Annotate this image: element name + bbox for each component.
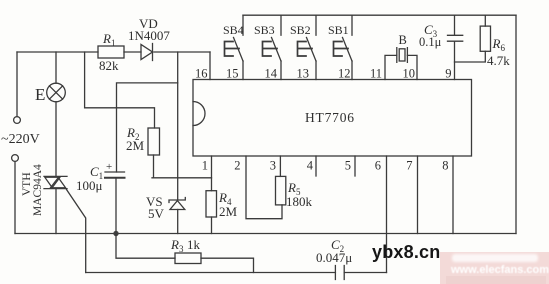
svg-text:4: 4 (307, 159, 314, 173)
switch SB2 (298, 15, 317, 79)
wire bottom bus (15, 233, 516, 235)
pin 7 (406, 159, 412, 173)
wire C1 top branch (117, 83, 178, 172)
label R6 (487, 36, 510, 68)
svg-text:~220V: ~220V (1, 132, 40, 147)
op-amp U1 HT7706 IC body (193, 80, 472, 157)
svg-text:2: 2 (234, 159, 240, 173)
svg-text:SB4: SB4 (223, 23, 244, 37)
label R2 (126, 125, 145, 153)
pin 14 (265, 67, 278, 81)
label VS 5V (146, 194, 165, 221)
svg-text:5V: 5V (148, 206, 165, 221)
resistor R5 (276, 156, 286, 205)
wire top bus (243, 14, 516, 16)
svg-text:SB2: SB2 (290, 23, 311, 37)
svg-text:5: 5 (345, 159, 351, 173)
node ~220V (1, 132, 40, 147)
svg-text:11: 11 (370, 67, 382, 81)
wire pin16 drop (209, 52, 211, 80)
pin 16 (195, 67, 208, 81)
resistor R6 (455, 15, 491, 62)
label B (399, 33, 407, 47)
svg-text:12: 12 (338, 67, 351, 81)
svg-text:13: 13 (297, 67, 310, 81)
label SB1 (328, 23, 349, 37)
pin 9 (445, 67, 451, 81)
label R5 (286, 180, 313, 209)
capacitor C3 (448, 15, 463, 41)
label SB2 (290, 23, 311, 37)
svg-text:B: B (399, 33, 407, 47)
svg-text:R3: R3 (170, 237, 184, 254)
label VTH (21, 172, 33, 196)
label HT7706 (305, 110, 355, 125)
capacitor C2 (335, 266, 386, 280)
svg-text:2M: 2M (219, 204, 238, 219)
label SB3 (254, 23, 275, 37)
wire branch mains to R2 (85, 52, 155, 128)
wire pin9 to C3 (454, 41, 456, 79)
svg-text:R1: R1 (102, 31, 115, 48)
capacitor C1 (105, 172, 125, 234)
svg-text:3: 3 (270, 159, 276, 173)
lamp E (47, 52, 66, 176)
wire right side vertical (515, 15, 517, 233)
wire pin7 (417, 156, 419, 234)
diode VD 1N4007 (141, 44, 153, 61)
svg-text:0.1μ: 0.1μ (419, 35, 442, 49)
svg-text:0.047μ: 0.047μ (316, 250, 352, 265)
watermark elecfans box (440, 252, 549, 284)
svg-text:6: 6 (375, 159, 381, 173)
wire VD output vertical (177, 52, 179, 200)
svg-text:100μ: 100μ (76, 178, 103, 193)
label R3 1k (170, 237, 201, 254)
wire bottom gate line (86, 272, 336, 274)
terminal top of ~220V (14, 52, 21, 123)
wire triac gate (67, 190, 86, 273)
svg-text:7: 7 (406, 159, 412, 173)
svg-text:+: + (106, 161, 112, 173)
svg-text:www.elecfans.com: www.elecfans.com (450, 264, 549, 276)
label SB4 (223, 23, 244, 37)
svg-text:1: 1 (202, 159, 208, 173)
svg-text:10: 10 (403, 67, 416, 81)
label R1 (99, 31, 119, 73)
svg-text:SB3: SB3 (254, 23, 275, 37)
switch SB3 (263, 15, 282, 79)
pin 11 (370, 67, 382, 81)
pin 4 stub (315, 156, 317, 176)
pin 5 (345, 159, 351, 173)
svg-text:ybx8.cn: ybx8.cn (372, 242, 440, 262)
label C3 (419, 22, 442, 49)
label MAC94A4 (32, 164, 44, 216)
pin 2 (234, 159, 240, 173)
svg-text:1k: 1k (187, 237, 201, 252)
switch SB4 (225, 15, 244, 79)
zener VS (169, 198, 185, 234)
svg-text:15: 15 (226, 67, 239, 81)
label R4 (218, 190, 238, 219)
label VD (128, 16, 170, 43)
svg-text:SB1: SB1 (328, 23, 349, 37)
watermark ybx8.cn (372, 242, 440, 262)
svg-text:4.7k: 4.7k (487, 53, 510, 68)
svg-text:1N4007: 1N4007 (128, 28, 170, 43)
pin 13 (297, 67, 310, 81)
resistor R3 (116, 234, 254, 273)
svg-text:2M: 2M (126, 138, 145, 153)
svg-text:R6: R6 (492, 36, 506, 53)
pin 15 (226, 67, 239, 81)
crystal B (385, 48, 417, 80)
svg-text:9: 9 (445, 67, 451, 81)
terminal bottom of ~220V (12, 155, 19, 234)
wire pin2 loop (246, 156, 282, 219)
label E (lamp) (35, 85, 45, 104)
triac VTH (44, 176, 67, 233)
svg-text:180k: 180k (286, 194, 313, 209)
pin 3 (270, 159, 276, 173)
pin 5 stub (354, 156, 356, 176)
wire pin6 (386, 156, 388, 273)
wire rail to pin1 (152, 177, 212, 179)
junction dot (113, 231, 118, 236)
resistor R2 (148, 128, 160, 178)
svg-text:HT7706: HT7706 (305, 110, 355, 125)
pin 4 (307, 159, 314, 173)
pin 12 (338, 67, 351, 81)
wire mains top (17, 51, 210, 53)
svg-text:8: 8 (442, 159, 448, 173)
wire pin8 (452, 156, 454, 234)
svg-text:E: E (35, 85, 45, 104)
pin 1 (202, 159, 208, 173)
resistor R1 (98, 46, 124, 58)
pin 6 (375, 159, 381, 173)
svg-text:82k: 82k (99, 58, 119, 73)
svg-text:16: 16 (195, 67, 208, 81)
label C1 (76, 161, 112, 193)
label C2 (316, 237, 352, 265)
pin 10 (403, 67, 416, 81)
resistor R4 (206, 156, 217, 234)
switch SB1 (334, 15, 353, 79)
pin 8 (442, 159, 448, 173)
svg-text:14: 14 (265, 67, 278, 81)
svg-text:MAC94A4: MAC94A4 (32, 164, 44, 216)
